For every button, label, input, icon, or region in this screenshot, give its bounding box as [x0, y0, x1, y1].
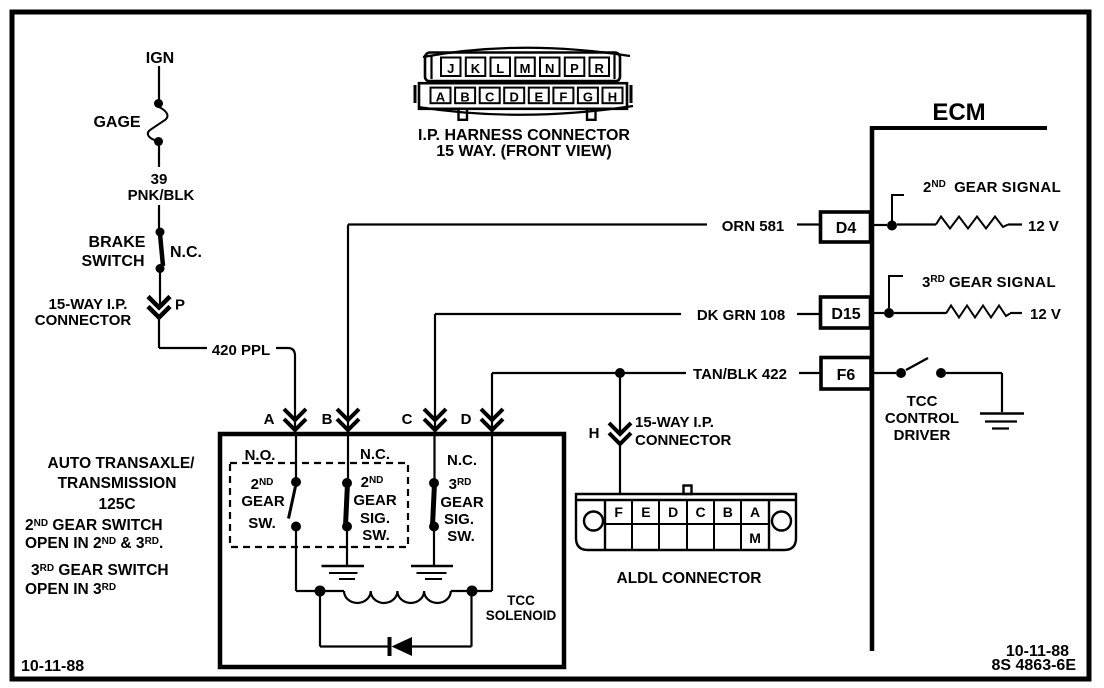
svg-text:P: P — [175, 297, 185, 314]
svg-text:F: F — [559, 90, 567, 105]
svg-text:CONNECTOR: CONNECTOR — [635, 432, 732, 449]
svg-text:N.C.: N.C. — [170, 244, 202, 261]
svg-text:A: A — [750, 504, 760, 520]
svg-text:AUTO TRANSAXLE/: AUTO TRANSAXLE/ — [48, 455, 196, 472]
svg-text:SW.: SW. — [447, 528, 475, 545]
svg-text:ALDL CONNECTOR: ALDL CONNECTOR — [617, 570, 762, 587]
svg-text:B: B — [460, 90, 469, 105]
svg-text:D: D — [510, 90, 519, 105]
svg-text:15 WAY. (FRONT VIEW): 15 WAY. (FRONT VIEW) — [436, 143, 611, 160]
svg-text:125C: 125C — [98, 496, 135, 513]
svg-text:A: A — [436, 90, 446, 105]
svg-text:B: B — [322, 411, 333, 428]
svg-text:CONNECTOR: CONNECTOR — [35, 312, 132, 329]
svg-text:I.P. HARNESS CONNECTOR: I.P. HARNESS CONNECTOR — [418, 127, 630, 144]
svg-text:H: H — [608, 90, 617, 105]
svg-text:C: C — [485, 90, 495, 105]
svg-text:B: B — [723, 504, 733, 520]
svg-text:DK GRN 108: DK GRN 108 — [697, 307, 785, 324]
svg-text:420 PPL: 420 PPL — [212, 342, 270, 359]
svg-text:K: K — [471, 61, 481, 76]
svg-text:E: E — [641, 504, 650, 520]
svg-text:GEAR: GEAR — [241, 493, 285, 510]
svg-text:12 V: 12 V — [1030, 306, 1061, 323]
svg-text:C: C — [402, 411, 413, 428]
svg-text:C: C — [695, 504, 705, 520]
svg-text:DRIVER: DRIVER — [894, 427, 951, 444]
svg-text:L: L — [496, 61, 504, 76]
svg-text:P: P — [570, 61, 579, 76]
svg-text:R: R — [595, 61, 605, 76]
svg-text:F: F — [614, 504, 623, 520]
svg-text:N.C.: N.C. — [360, 446, 390, 463]
svg-text:SWITCH: SWITCH — [81, 253, 144, 270]
svg-text:ORN 581: ORN 581 — [722, 218, 785, 235]
svg-text:N.C.: N.C. — [447, 452, 477, 469]
svg-text:TCC: TCC — [907, 393, 938, 410]
svg-text:SIG.: SIG. — [360, 510, 390, 527]
svg-text:H: H — [589, 425, 600, 442]
svg-text:N.O.: N.O. — [245, 447, 276, 464]
svg-text:GEAR: GEAR — [353, 492, 397, 509]
svg-text:TRANSMISSION: TRANSMISSION — [58, 475, 177, 492]
svg-text:M: M — [520, 61, 531, 76]
svg-text:PNK/BLK: PNK/BLK — [128, 187, 195, 204]
svg-text:15-WAY I.P.: 15-WAY I.P. — [49, 296, 128, 313]
svg-text:E: E — [534, 90, 543, 105]
svg-text:D: D — [668, 504, 678, 520]
svg-text:TAN/BLK 422: TAN/BLK 422 — [693, 366, 787, 383]
svg-text:10-11-88: 10-11-88 — [21, 658, 84, 675]
svg-text:J: J — [447, 61, 454, 76]
svg-text:8S 4863-6E: 8S 4863-6E — [991, 657, 1076, 674]
svg-text:D15: D15 — [831, 306, 860, 323]
svg-text:SIG.: SIG. — [444, 511, 474, 528]
svg-text:BRAKE: BRAKE — [89, 234, 146, 251]
svg-text:IGN: IGN — [146, 50, 174, 67]
svg-text:SW.: SW. — [248, 515, 276, 532]
svg-text:D: D — [461, 411, 472, 428]
svg-text:D4: D4 — [836, 220, 857, 237]
svg-text:M: M — [749, 530, 761, 546]
svg-text:G: G — [583, 90, 593, 105]
svg-text:ECM: ECM — [932, 99, 985, 126]
svg-text:15-WAY I.P.: 15-WAY I.P. — [635, 414, 714, 431]
svg-text:GAGE: GAGE — [93, 114, 140, 131]
svg-text:GEAR: GEAR — [440, 494, 484, 511]
svg-text:12 V: 12 V — [1028, 218, 1059, 235]
svg-text:N: N — [545, 61, 554, 76]
svg-text:39: 39 — [151, 171, 168, 188]
svg-text:SW.: SW. — [362, 527, 390, 544]
svg-text:A: A — [264, 411, 275, 428]
svg-text:TCC: TCC — [507, 593, 535, 608]
svg-text:CONTROL: CONTROL — [885, 410, 959, 427]
svg-text:F6: F6 — [837, 367, 856, 384]
svg-text:OPEN IN 2ND & 3RD.: OPEN IN 2ND & 3RD. — [25, 535, 163, 552]
svg-text:SOLENOID: SOLENOID — [486, 608, 557, 623]
